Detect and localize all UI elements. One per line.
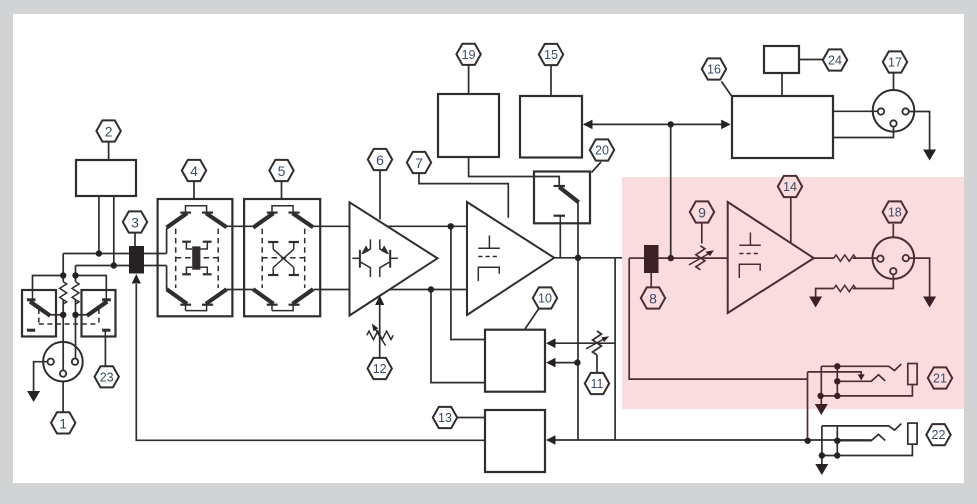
svg-text:19: 19	[462, 48, 476, 62]
svg-text:15: 15	[544, 48, 558, 62]
svg-text:6: 6	[376, 152, 384, 168]
svg-text:14: 14	[783, 180, 797, 194]
svg-text:1: 1	[59, 415, 67, 431]
svg-text:24: 24	[828, 54, 842, 68]
svg-text:12: 12	[373, 362, 387, 376]
svg-text:16: 16	[707, 63, 721, 77]
svg-text:23: 23	[100, 370, 114, 384]
svg-text:18: 18	[888, 206, 902, 220]
svg-text:21: 21	[933, 372, 947, 386]
svg-text:3: 3	[131, 215, 139, 231]
svg-text:11: 11	[591, 377, 604, 391]
svg-text:8: 8	[649, 291, 657, 307]
svg-text:13: 13	[438, 411, 452, 425]
svg-text:2: 2	[105, 124, 113, 140]
svg-text:10: 10	[538, 292, 552, 306]
svg-text:7: 7	[415, 155, 423, 171]
svg-text:9: 9	[698, 205, 706, 221]
svg-text:20: 20	[595, 144, 609, 158]
svg-text:17: 17	[888, 56, 902, 70]
svg-text:5: 5	[278, 163, 286, 179]
svg-text:4: 4	[190, 163, 198, 179]
svg-text:22: 22	[932, 428, 946, 442]
